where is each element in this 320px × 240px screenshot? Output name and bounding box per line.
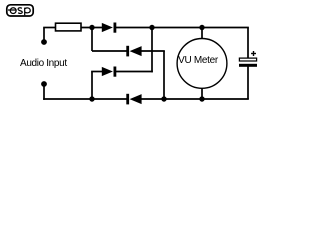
- wire: meter top lead: [201, 28, 203, 40]
- wire: corner riser down to minus rail: [163, 51, 165, 99]
- wire: capacitor top lead: [247, 28, 249, 59]
- input terminal (top): [41, 39, 47, 45]
- wire: D3 row left stub from corner: [91, 71, 102, 73]
- svg-text:VU Meter: VU Meter: [178, 55, 219, 66]
- wire: node B riser down to D3 row (crosses D2 row, no connection): [151, 28, 153, 73]
- diode D4 (points left, minus rail to lower input): [126, 94, 141, 105]
- wire: resistor to node A: [81, 27, 103, 29]
- junction dot at D3 riser / bottom rail: [89, 96, 94, 101]
- junction dot at meter bottom: [199, 96, 204, 101]
- wire: bottom input riser: [43, 84, 45, 100]
- junction dot at D2 corner riser / bottom rail: [161, 96, 166, 101]
- diode D3 (points right, lower input to + rail): [102, 67, 117, 77]
- junction dot at meter top: [199, 25, 204, 30]
- diode D1 (points right, node A to + rail): [102, 23, 117, 33]
- wire: top rail, D1 cathode to top-right corner: [116, 27, 249, 29]
- input terminal (bottom): [41, 81, 47, 87]
- capacitor polarity + sign: [251, 51, 256, 56]
- node A junction dot: [89, 25, 94, 30]
- svg-text:Audio Input: Audio Input: [20, 58, 67, 69]
- wire: capacitor bottom lead: [247, 66, 249, 99]
- wire: D3 cathode to node B riser: [116, 71, 153, 73]
- capacitor C1 (polarised): [239, 58, 257, 67]
- wire: node A riser down to D2 row: [91, 28, 93, 52]
- ESP logo: [7, 5, 33, 16]
- wire: top rail, input to resistor: [43, 27, 56, 29]
- wire: D2 row right segment (anode to corner): [142, 50, 165, 52]
- wire: left riser from D3 row to bottom rail: [91, 72, 93, 100]
- resistor R1: [56, 23, 82, 31]
- wire: D2 row left segment (node A corner to D2 cathode): [92, 50, 127, 52]
- VU meter M1: [177, 39, 227, 89]
- wire: top input riser: [43, 28, 45, 43]
- wire: meter bottom lead: [201, 88, 203, 100]
- wire: bottom rail right segment (D4 anode to bottom-right corner): [142, 98, 249, 100]
- wire: bottom rail left segment (input to D4 cathode): [43, 98, 127, 100]
- diode D2 (points left, minus rail to node A): [126, 46, 141, 57]
- node B junction dot: [149, 25, 154, 30]
